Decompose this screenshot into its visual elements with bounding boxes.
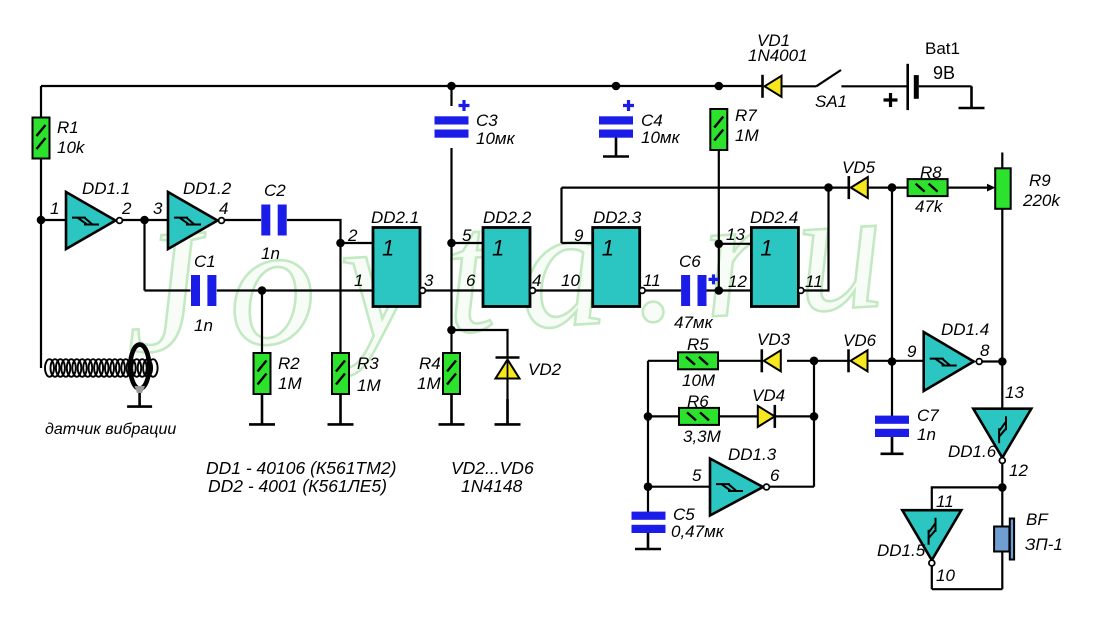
node 12 junction [998, 483, 1007, 492]
svg-text:DD1.1: DD1.1 [82, 179, 130, 198]
svg-text:11: 11 [936, 492, 954, 511]
diode VD5 [847, 176, 850, 199]
svg-text:VD5: VD5 [842, 158, 876, 177]
svg-text:47k: 47k [915, 197, 944, 216]
inverter DD1.6 [973, 409, 1031, 458]
wire C1 line to DD2.1 pin1 [145, 289, 374, 291]
svg-text:2: 2 [347, 226, 358, 245]
ground battery [959, 86, 985, 108]
svg-text:10мк: 10мк [476, 129, 516, 148]
resistor R7 [710, 109, 727, 150]
svg-text:C2: C2 [264, 181, 286, 200]
resistor R4 [443, 353, 460, 394]
NOR gate DD2.3 [593, 228, 640, 307]
svg-text:R2: R2 [278, 354, 300, 373]
svg-text:VD2: VD2 [528, 360, 562, 379]
ground C7 [881, 437, 904, 454]
wire VD5 node down to VD6/DD1.4 input and C7 [891, 188, 893, 416]
svg-text:C1: C1 [194, 252, 216, 271]
svg-text:0,47мк: 0,47мк [671, 522, 725, 541]
wire pin5 to DD2.2 [452, 242, 484, 244]
svg-text:SA1: SA1 [815, 92, 847, 111]
diode VD3 [760, 349, 763, 372]
svg-text:C3: C3 [476, 111, 498, 130]
wire DD1.1 output to DD1.2 [118, 219, 168, 221]
svg-text:4: 4 [219, 199, 228, 218]
wire left vertical from rail through R1 to sensor [40, 86, 42, 368]
svg-text:1: 1 [50, 199, 59, 218]
svg-text:1n: 1n [261, 244, 280, 263]
svg-text:R7: R7 [735, 106, 757, 125]
svg-text:VD4: VD4 [752, 386, 785, 405]
svg-text:DD2 - 4001 (К561ЛЕ5): DD2 - 4001 (К561ЛЕ5) [208, 476, 387, 496]
svg-text:12: 12 [728, 272, 747, 291]
wire DD2.1 out pin3 to DD2.2 pin6 [425, 289, 483, 291]
wire DD1.3 output [768, 486, 814, 488]
wire VD2 to ground [506, 378, 508, 424]
svg-text:R5: R5 [687, 335, 709, 354]
svg-text:датчик вибрации: датчик вибрации [45, 421, 176, 438]
svg-text:10мк: 10мк [641, 128, 681, 147]
resistor R8 [908, 179, 948, 196]
svg-text:DD1.3: DD1.3 [728, 445, 777, 464]
potentiometer R9 [987, 184, 996, 192]
svg-text:1: 1 [602, 236, 614, 261]
svg-text:6: 6 [466, 271, 476, 290]
inverter DD1.4 [924, 332, 974, 391]
wire C7 to ground stem [891, 437, 893, 454]
wire DD1.3 input [648, 486, 710, 488]
resistor R5 [678, 352, 718, 369]
svg-text:1n: 1n [194, 316, 213, 335]
ground VD2 [495, 399, 521, 424]
svg-text:5: 5 [692, 466, 702, 485]
ground R2 [249, 394, 275, 424]
wire C3 vertical net: rail to pin5, R4, ground [450, 86, 452, 353]
svg-text:C6: C6 [679, 252, 701, 271]
wire node3 down to C1 line [143, 220, 145, 291]
svg-text:47мк: 47мк [674, 313, 714, 332]
ground C5 [635, 532, 661, 549]
svg-text:10: 10 [936, 566, 955, 585]
sensor ring [130, 345, 149, 389]
wire node12 to BF and bottom loop [932, 487, 1003, 589]
wire pin13 [719, 243, 752, 245]
svg-text:9: 9 [574, 226, 584, 245]
ground C4 [603, 136, 629, 157]
wire R7 vertical to pins 13/12 [718, 150, 720, 291]
wire C2 to DD2.1 pin2 corner [287, 220, 373, 243]
svg-text:3: 3 [153, 199, 163, 218]
wire top power rail [41, 85, 763, 87]
capacitor C2 [261, 205, 270, 236]
junction dots [447, 82, 456, 91]
svg-text:8: 8 [980, 341, 990, 360]
svg-text:R4: R4 [419, 354, 441, 373]
svg-text:R3: R3 [357, 354, 379, 373]
svg-text:1M: 1M [278, 374, 302, 393]
capacitor C1 [191, 275, 200, 306]
svg-text:BF: BF [1026, 510, 1049, 529]
svg-text:VD3: VD3 [757, 330, 791, 349]
svg-text:DD2.1: DD2.1 [371, 208, 419, 227]
svg-text:DD2.3: DD2.3 [593, 208, 642, 227]
wire VD5 segments [829, 187, 893, 189]
svg-text:DD2.2: DD2.2 [483, 208, 532, 227]
capacitor C7 [875, 416, 909, 424]
svg-text:13: 13 [726, 225, 745, 244]
inverter DD1.5 [902, 510, 961, 560]
svg-text:1: 1 [492, 236, 504, 261]
svg-text:1M: 1M [417, 374, 441, 393]
svg-text:ЗП-1: ЗП-1 [1025, 535, 1063, 554]
svg-text:VD6: VD6 [843, 331, 877, 350]
wire DD1.1 input [41, 219, 66, 221]
wire R6/VD4 line [648, 415, 814, 417]
wire battery to ground [919, 85, 972, 87]
svg-text:R6: R6 [687, 392, 709, 411]
wire R8 segments [892, 187, 989, 189]
svg-text:1n: 1n [917, 425, 936, 444]
svg-text:1M: 1M [735, 126, 759, 145]
diode VD2 [496, 356, 520, 359]
svg-text:5: 5 [462, 226, 472, 245]
svg-text:1: 1 [382, 236, 394, 261]
wire left loop vertical R5-R6-DD1.3-C5 [647, 361, 649, 513]
svg-text:2: 2 [121, 199, 132, 218]
svg-text:12: 12 [1009, 461, 1028, 480]
wire DD2.4 out pin11 up to feedback [804, 188, 829, 291]
wire R5/VD3 line [648, 360, 924, 362]
svg-text:R8: R8 [920, 163, 942, 182]
wire junction to VD2 [452, 330, 508, 358]
diode VD4 [758, 406, 775, 427]
wire DD1.2 output to C2 [222, 219, 262, 221]
svg-text:11: 11 [643, 271, 661, 290]
svg-text:9В: 9В [933, 63, 955, 83]
ground sensor [127, 392, 152, 407]
svg-text:VD2...VD6: VD2...VD6 [451, 458, 534, 478]
inverter DD1.1 [66, 192, 116, 249]
svg-text:9: 9 [907, 342, 917, 361]
capacitor C5 [632, 512, 666, 520]
wire DD2.2 out pin4 to DD2.3 pin10 [535, 289, 593, 291]
svg-text:3: 3 [424, 271, 434, 290]
svg-text:10: 10 [561, 271, 580, 290]
svg-text:C7: C7 [917, 406, 939, 425]
inverter DD1.3 [710, 459, 763, 516]
svg-text:1: 1 [760, 236, 772, 261]
svg-text:DD2.4: DD2.4 [750, 208, 798, 227]
svg-text:DD1 - 40106 (К561ТМ2): DD1 - 40106 (К561ТМ2) [206, 458, 396, 478]
wire R2 drop [261, 291, 263, 354]
capacitor C4 [599, 116, 633, 124]
NOR gate DD2.2 [483, 228, 530, 307]
wire R9 stub top and bottom to DD1.4 output node [1001, 153, 1003, 409]
svg-text:1: 1 [354, 271, 363, 290]
svg-text:Bat1: Bat1 [925, 39, 960, 58]
diode VD6 [847, 349, 850, 372]
svg-text:R9: R9 [1029, 171, 1051, 190]
NOR gate DD2.4 [751, 228, 798, 307]
svg-text:220k: 220k [1022, 191, 1061, 210]
svg-text:DD1.6: DD1.6 [948, 442, 997, 461]
capacitor C6 electrolytic [681, 275, 690, 306]
svg-text:6: 6 [770, 466, 780, 485]
switch SA1 [783, 70, 908, 86]
svg-text:1N4148: 1N4148 [461, 476, 523, 496]
svg-text:DD1.4: DD1.4 [941, 320, 989, 339]
svg-text:3,3М: 3,3М [683, 427, 722, 446]
svg-text:DD1.2: DD1.2 [183, 179, 232, 198]
wire DD2.3 pin9 feedback vertical [562, 188, 593, 243]
capacitor C3 [435, 116, 469, 124]
svg-text:10М: 10М [682, 371, 716, 390]
NOR gate DD2.1 [373, 228, 420, 307]
svg-text:R1: R1 [57, 118, 79, 137]
svg-text:13: 13 [1005, 383, 1024, 402]
svg-text:11: 11 [805, 272, 823, 291]
ground R3 [328, 394, 354, 424]
buzzer BF [994, 527, 1009, 552]
wire feedback line [562, 187, 829, 189]
ground R4 [439, 394, 465, 424]
diode VD1 [761, 75, 764, 98]
wire right loop vertical VD3-VD4-DD1.3out [813, 361, 815, 487]
resistor R3 [332, 353, 349, 394]
svg-text:10k: 10k [57, 138, 86, 157]
svg-text:DD1.5: DD1.5 [877, 541, 926, 560]
wire DD2.3 out pin11 to C6 [645, 289, 681, 291]
resistor R2 [254, 353, 271, 394]
resistor R1 [33, 118, 50, 159]
svg-text:1N4001: 1N4001 [748, 46, 808, 65]
wire DD1.4 output to right vertical [982, 360, 1003, 362]
resistor R6 [679, 408, 719, 425]
wire DD1.6 output to node 12 [1001, 463, 1003, 487]
wire node pin2 down to R3 [339, 243, 341, 353]
inverter DD1.2 [168, 192, 218, 249]
svg-text:1M: 1M [357, 376, 381, 395]
wire C6 to pin12 node [707, 289, 752, 291]
battery Bat1 [906, 64, 909, 110]
vibration sensor coil [45, 359, 54, 377]
